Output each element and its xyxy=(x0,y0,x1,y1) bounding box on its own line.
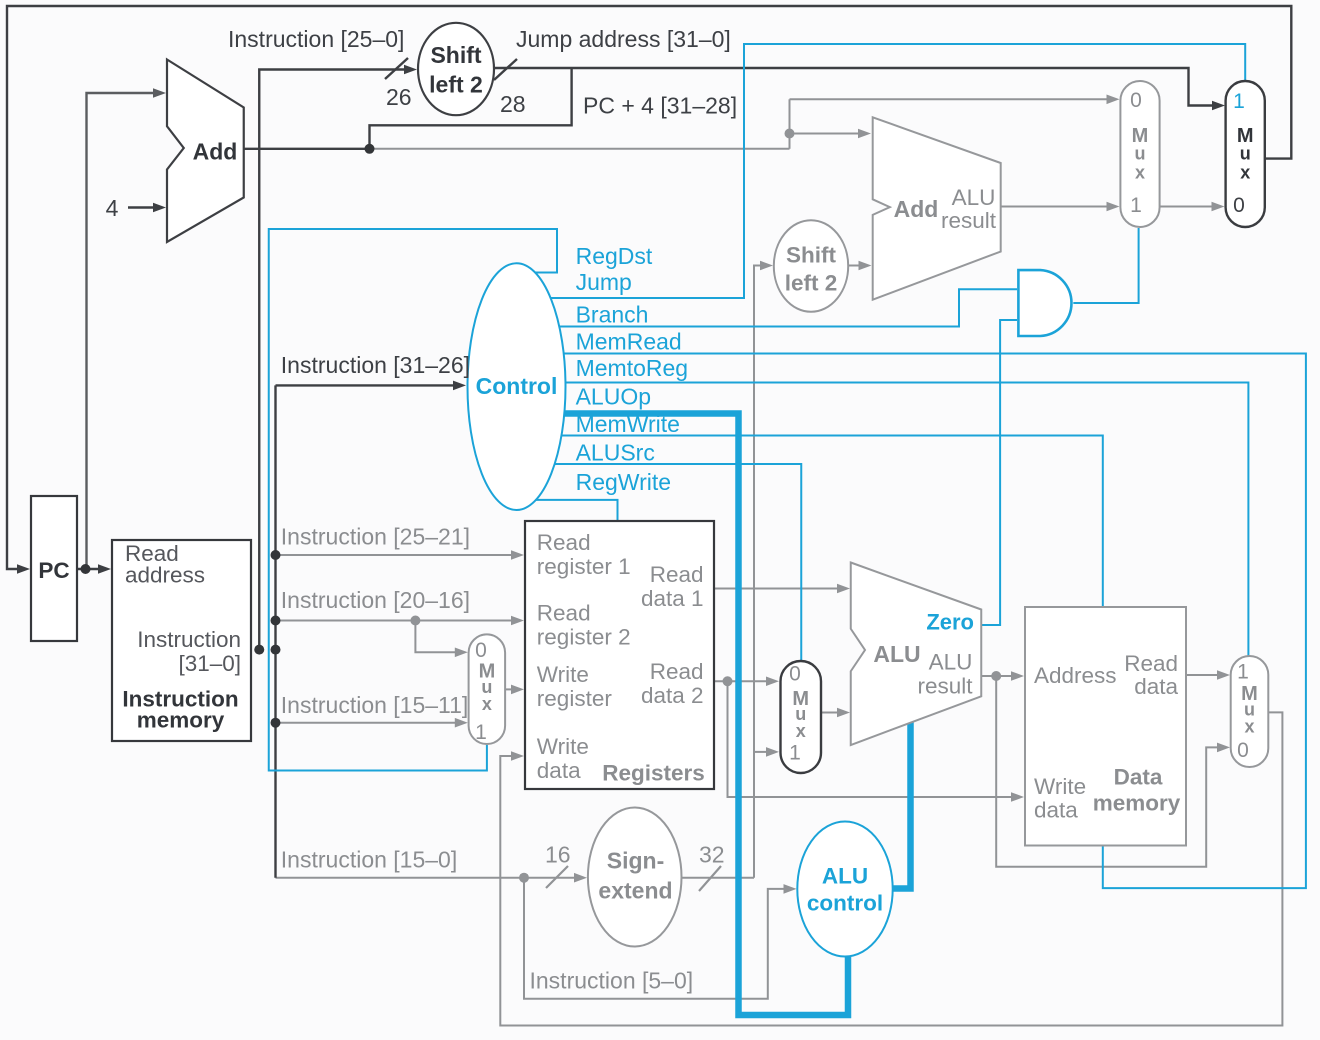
svg-text:16: 16 xyxy=(545,842,571,868)
arrow into shift left 2 (branch) xyxy=(760,261,773,271)
wire ALU result down-around to memtoreg mux input 0 xyxy=(996,676,1218,867)
svg-text:result: result xyxy=(941,208,997,233)
svg-text:1: 1 xyxy=(1237,661,1249,684)
svg-text:ALU: ALU xyxy=(929,650,973,675)
mux write-register (0 Mux 1) xyxy=(469,634,506,744)
arrow into write-reg mux 0 xyxy=(455,648,468,658)
PC register xyxy=(31,496,77,641)
svg-text:x: x xyxy=(1240,163,1250,183)
arrow ALUSrc mux out into ALU xyxy=(837,708,850,718)
shift left 2 (jump) ellipse xyxy=(418,23,494,115)
slash 28 xyxy=(494,59,517,80)
arrow 4 into Add xyxy=(153,203,166,213)
svg-text:register 2: register 2 xyxy=(537,625,631,650)
wire ALUSrc mux output to ALU xyxy=(821,712,838,714)
node instruction 15-0 xyxy=(519,873,529,883)
svg-text:Read: Read xyxy=(537,601,591,626)
svg-text:register 1: register 1 xyxy=(537,554,631,579)
wire Instruction [15-0] xyxy=(276,877,576,879)
arrow into Read register 2 xyxy=(511,616,524,626)
svg-text:u: u xyxy=(1240,144,1251,164)
node instruction 25-21 xyxy=(271,550,281,560)
svg-text:32: 32 xyxy=(699,842,725,868)
svg-text:extend: extend xyxy=(598,878,672,904)
svg-text:ALU: ALU xyxy=(873,641,920,667)
wire Add output (PC+4) to junction xyxy=(244,148,370,150)
svg-text:left 2: left 2 xyxy=(429,72,483,98)
svg-text:Registers: Registers xyxy=(602,761,705,786)
arrow write data into data memory xyxy=(1011,792,1024,802)
AND gate xyxy=(1018,270,1071,336)
arrow write-reg mux out into Write register xyxy=(511,685,524,695)
svg-text:data 2: data 2 xyxy=(641,683,704,708)
svg-text:Add: Add xyxy=(193,139,238,165)
wire shift-left-2 (branch) output to branch adder bottom input xyxy=(848,265,859,267)
adder Add (PC+4) xyxy=(167,60,244,243)
arrow branch adder result into mux 1 xyxy=(1107,202,1120,212)
svg-text:Instruction [20–16]: Instruction [20–16] xyxy=(281,587,470,613)
mux jump (1 Mux 0, top right) xyxy=(1226,81,1265,227)
ALU main xyxy=(851,563,982,746)
wire instruction trunk (x=275.5) xyxy=(274,385,276,877)
arrow into Read register 1 xyxy=(511,550,524,560)
wire MemtoReg to memtoreg mux select xyxy=(530,383,1248,657)
svg-text:1: 1 xyxy=(789,742,801,765)
svg-text:control: control xyxy=(807,891,883,916)
arrow Read data 1 into ALU xyxy=(837,584,850,594)
svg-text:Read: Read xyxy=(537,530,591,555)
arrow into Control xyxy=(453,381,466,391)
wire Jump to jump mux select xyxy=(530,44,1245,298)
wire Read data 1 to ALU xyxy=(714,588,838,590)
slash 26 xyxy=(385,58,408,79)
mux memtoreg (1 Mux 0) xyxy=(1231,656,1269,767)
wire Zero from ALU to AND gate input 2 xyxy=(981,320,1017,625)
arrow PC into Add top xyxy=(153,88,166,98)
svg-text:memory: memory xyxy=(1093,791,1181,816)
arrow into branch adder top xyxy=(858,129,871,139)
svg-text:x: x xyxy=(796,721,806,741)
sign-extend ellipse xyxy=(588,808,682,947)
svg-text:Instruction [15–11]: Instruction [15–11] xyxy=(281,692,469,718)
svg-text:Write: Write xyxy=(537,662,589,687)
wire Write data to data memory xyxy=(728,681,1013,797)
wire PC value to Add (vertical from PC out up, into Add top input) xyxy=(87,93,156,569)
wire RegWrite to Registers xyxy=(530,500,618,522)
arrow [5-0] into ALU control xyxy=(784,884,797,894)
wire MemWrite to data memory (top) xyxy=(530,436,1103,609)
arrow sign-extend into ALUSrc mux 1 xyxy=(766,747,779,757)
arrow ALU result into Address xyxy=(1011,671,1024,681)
wire PC feedback frame: jump mux output, up and around to PC input xyxy=(7,6,1291,569)
svg-text:Instruction [15–0]: Instruction [15–0] xyxy=(281,847,457,873)
svg-text:Shift: Shift xyxy=(786,243,836,268)
branch adder (Add ALU) xyxy=(873,117,1001,299)
svg-text:Read: Read xyxy=(650,659,704,684)
mux ALUSrc (0 Mux 1) xyxy=(781,661,822,773)
svg-text:0: 0 xyxy=(1237,739,1249,762)
wire Instruction [5-0] xyxy=(524,878,784,999)
arrow branch mux out into jump mux 0 xyxy=(1212,202,1225,212)
arrow into shift left 2 (jump) xyxy=(404,65,417,75)
wire PC+4 tap to branch adder top input xyxy=(790,133,859,135)
wire PC+4 riser at x=789.5 xyxy=(789,99,791,149)
wire PC output to Read address xyxy=(77,568,99,570)
svg-text:Shift: Shift xyxy=(430,42,481,68)
svg-text:Jump: Jump xyxy=(576,269,632,295)
svg-text:Control: Control xyxy=(476,373,558,399)
arrow into write-reg mux 1 xyxy=(455,718,468,728)
wire jump address [31-0] to jump mux input 1 xyxy=(494,68,1213,106)
svg-text:0: 0 xyxy=(789,663,801,686)
svg-text:PC + 4 [31–28]: PC + 4 [31–28] xyxy=(583,93,737,119)
mux branch (0 Mux 1, top) xyxy=(1120,81,1159,227)
svg-text:u: u xyxy=(1135,144,1146,164)
svg-text:ALUOp: ALUOp xyxy=(576,384,651,410)
wire ALUOp (thick) to ALU control xyxy=(530,414,848,1016)
svg-text:result: result xyxy=(917,674,973,699)
svg-text:Read: Read xyxy=(650,562,704,587)
svg-text:MemRead: MemRead xyxy=(576,329,682,355)
arrow write-back into Write data xyxy=(511,751,524,761)
svg-text:Jump address [31–0]: Jump address [31–0] xyxy=(516,26,731,52)
wire Instruction [25-0] to shift-left-2 xyxy=(259,70,404,650)
node 20-16 branch xyxy=(410,616,420,626)
svg-text:Address: Address xyxy=(1034,663,1117,688)
wire write-reg mux output to Write register xyxy=(505,688,512,690)
wire sign-extend output riser up to shift-left-2 (branch) xyxy=(754,266,761,878)
ALU control ellipse xyxy=(797,822,892,957)
arrow into jump mux input 1 xyxy=(1212,101,1225,111)
wire data memory Read data to memtoreg mux input 1 xyxy=(1186,674,1218,676)
svg-text:Instruction [25–0]: Instruction [25–0] xyxy=(228,26,404,52)
svg-text:x: x xyxy=(1135,163,1145,183)
control ellipse xyxy=(468,263,566,510)
wire Instruction [15-11] to write-reg mux input 1 xyxy=(276,722,457,724)
svg-text:Instruction: Instruction xyxy=(137,627,241,652)
node instruction out b xyxy=(271,645,281,655)
svg-text:1: 1 xyxy=(475,721,487,744)
svg-text:[31–0]: [31–0] xyxy=(178,651,241,676)
svg-text:Add: Add xyxy=(894,196,939,222)
wire Instruction [25-21] xyxy=(276,554,513,556)
wire Instruction [20-16] xyxy=(276,620,513,622)
arrow into PC xyxy=(17,564,30,574)
svg-text:Write: Write xyxy=(1034,774,1086,799)
svg-text:Instruction [5–0]: Instruction [5–0] xyxy=(530,968,694,994)
svg-text:PC: PC xyxy=(38,558,69,583)
wire branch mux output to jump mux input 0 xyxy=(1160,206,1212,208)
svg-text:Write: Write xyxy=(537,734,589,759)
node instruction 15-11 xyxy=(271,718,281,728)
slash 16 on sign-extend input xyxy=(546,866,568,888)
svg-text:1: 1 xyxy=(1233,90,1245,113)
svg-text:0: 0 xyxy=(1130,89,1142,112)
svg-text:data 1: data 1 xyxy=(641,586,704,611)
wire ALU result to data memory Address xyxy=(981,675,1012,677)
svg-text:Instruction [25–21]: Instruction [25–21] xyxy=(281,524,470,550)
svg-text:Zero: Zero xyxy=(926,610,974,635)
svg-text:ALUSrc: ALUSrc xyxy=(576,440,655,466)
svg-text:Instruction [31–26]: Instruction [31–26] xyxy=(281,352,470,378)
svg-text:Read: Read xyxy=(1124,651,1178,676)
wire ALU control output (thick) to ALU xyxy=(888,722,911,889)
wire MemRead to data memory (bottom) xyxy=(530,354,1306,889)
data memory box xyxy=(1025,607,1186,846)
registers box xyxy=(525,521,714,789)
svg-text:RegWrite: RegWrite xyxy=(576,469,671,495)
arrow shl2 out into branch adder xyxy=(859,261,872,271)
arrow read data 2 into ALUSrc mux 0 xyxy=(766,676,779,686)
wire AND gate output to branch mux select xyxy=(1073,228,1138,303)
slash 32 on sign-extend output xyxy=(699,866,721,891)
wire write-back: memtoreg mux output to Registers Write data xyxy=(500,712,1282,1025)
svg-text:Sign-: Sign- xyxy=(607,848,665,874)
arrow into Read address xyxy=(98,564,111,574)
instruction memory box xyxy=(112,540,251,741)
svg-text:data: data xyxy=(1034,798,1078,823)
svg-text:4: 4 xyxy=(106,195,119,221)
svg-text:26: 26 xyxy=(386,84,412,110)
svg-text:address: address xyxy=(125,563,205,588)
svg-text:MemtoReg: MemtoReg xyxy=(576,355,688,381)
node read data 2 xyxy=(723,676,733,686)
arrow PC+4 into branch mux 0 xyxy=(1107,95,1120,105)
svg-text:register: register xyxy=(537,686,613,711)
svg-text:MemWrite: MemWrite xyxy=(576,411,680,437)
svg-text:x: x xyxy=(1244,717,1254,737)
svg-text:0: 0 xyxy=(475,639,487,662)
svg-text:1: 1 xyxy=(1130,194,1142,217)
node instruction out a xyxy=(254,645,264,655)
svg-text:x: x xyxy=(482,694,492,714)
wire ALUSrc to ALUSrc mux select xyxy=(530,464,801,662)
svg-text:RegDst: RegDst xyxy=(576,243,653,269)
svg-text:memory: memory xyxy=(137,708,225,733)
node ALU result xyxy=(991,671,1001,681)
svg-text:Branch: Branch xyxy=(576,302,649,328)
wire PC+4 from Add-out dot to branch adder riser xyxy=(370,148,790,150)
arrow read data into memtoreg mux 1 xyxy=(1217,670,1230,680)
svg-text:ALU: ALU xyxy=(822,864,868,889)
arrow into sign-extend xyxy=(574,873,587,883)
svg-text:data: data xyxy=(1134,674,1178,699)
wire Branch to AND gate input 1 xyxy=(530,289,1017,326)
wire RegDst to write-reg mux select xyxy=(269,229,557,771)
wire Instruction [20-16] branch to write-reg mux input 0 xyxy=(415,621,456,653)
svg-text:Data: Data xyxy=(1114,765,1163,790)
wire Read data 2 to ALUSrc mux input 0 xyxy=(714,680,767,682)
wire Instruction [31-26] to Control xyxy=(276,384,454,386)
svg-text:28: 28 xyxy=(500,91,526,117)
node PC+4 riser xyxy=(785,129,795,139)
shift left 2 (branch) ellipse xyxy=(774,220,848,312)
svg-text:data: data xyxy=(537,758,581,783)
wire 4 into Add xyxy=(128,206,154,208)
arrow ALU result into memtoreg mux 0 xyxy=(1217,743,1230,753)
node PC out xyxy=(81,564,91,574)
wire PC+4 to branch mux input 0 xyxy=(790,98,1108,100)
wire tee to ALUSrc mux input 1 xyxy=(754,751,767,753)
node instruction 20-16 xyxy=(271,616,281,626)
node PC+4 xyxy=(365,144,375,154)
wire sign-extend output (32) xyxy=(682,877,755,879)
svg-text:left 2: left 2 xyxy=(785,271,838,296)
wire PC+4[31-28] up to jump address line xyxy=(370,68,572,149)
wire branch adder ALU result to branch mux input 1 xyxy=(1001,206,1107,208)
svg-text:ALU: ALU xyxy=(952,185,996,210)
svg-text:0: 0 xyxy=(1233,194,1245,217)
